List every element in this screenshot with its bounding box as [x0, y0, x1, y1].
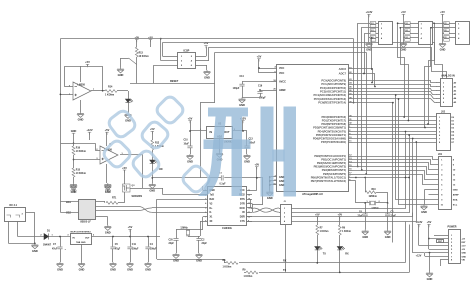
ground U2 ADJ: [216, 152, 223, 157]
wire DTR down: [252, 204, 254, 213]
wire ADC7: [353, 74, 375, 87]
svg-text:ANALOG IN: ANALOG IN: [441, 74, 455, 77]
svg-text:RESET: RESET: [170, 80, 179, 83]
ground CZ3: [439, 42, 446, 47]
wire U1 pin 1: [348, 127, 353, 129]
svg-text:1 KOhm: 1 KOhm: [105, 94, 114, 97]
wire DC pin2 down: [17, 221, 19, 236]
svg-text:AVCC: AVCC: [279, 81, 286, 84]
wire U1 pin 2: [348, 131, 353, 133]
svg-text:PB3(MOSI/OC2A/PCINT3): PB3(MOSI/OC2A/PCINT3): [314, 165, 347, 169]
ground spare: [104, 185, 111, 190]
svg-text:PC1(ADC1/PCINT9): PC1(ADC1/PCINT9): [321, 82, 346, 86]
svg-text:PC0(ADC0/PCINT8): PC0(ADC0/PCINT8): [321, 79, 346, 83]
wire U4 right pin 12: [247, 207, 252, 209]
wire DTR reset line: [152, 177, 263, 179]
wire SDA: [396, 95, 439, 200]
wire +12V stub: [242, 121, 244, 132]
node xtal row: [355, 177, 357, 179]
wire J2 pin2 to PD5: [292, 135, 410, 213]
wire +12V stub down: [89, 132, 91, 140]
wire U2 ADJ to ground: [219, 139, 221, 153]
svg-text:1MOhm: 1MOhm: [369, 196, 377, 198]
wire: [251, 208, 254, 210]
wire TxD feed: [162, 188, 164, 195]
node MISO junction: [361, 169, 363, 171]
connector USB B-LF: [79, 200, 96, 220]
svg-text:VIN: VIN: [462, 260, 466, 262]
crystal Y1 12MHz: [356, 202, 370, 204]
wire U1 pin 32: [348, 124, 353, 126]
wire to C3: [387, 203, 389, 214]
resistor: [72, 146, 75, 155]
svg-text:GND: GND: [362, 235, 368, 239]
wire digital D1: [353, 120, 437, 122]
wire U1 pin 18 AVCC: [271, 81, 277, 83]
svg-text:PB0(PCINT0/CLKO/ICP1): PB0(PCINT0/CLKO/ICP1): [314, 154, 346, 158]
svg-text:PB5(SCK/PCINT5): PB5(SCK/PCINT5): [323, 172, 346, 176]
wire C5 to ground: [112, 249, 114, 262]
transistor Q3 SI2302DS: [123, 184, 131, 192]
wire left rail to node: [60, 143, 73, 145]
wire ICSP pin3: [161, 60, 178, 62]
node DTR crossing: [256, 177, 258, 179]
svg-text:+5V: +5V: [105, 128, 110, 132]
svg-text:R13: R13: [139, 53, 144, 55]
wire JX1 gnd down: [424, 190, 426, 205]
svg-text:1 KOhm: 1 KOhm: [320, 231, 329, 233]
svg-text:TxD: TxD: [210, 195, 215, 197]
ground CZ1: [366, 42, 373, 47]
svg-text:MB1: MB1: [66, 202, 72, 204]
svg-text:DCD: DCD: [240, 208, 245, 210]
wire U3B output: [120, 154, 143, 156]
wire AREF to C16: [260, 90, 262, 92]
wire U1 pin 3 GND: [271, 176, 277, 178]
wire U1 pin 22: [348, 73, 353, 75]
wire analog A1: [353, 85, 437, 87]
svg-text:GND: GND: [244, 160, 250, 164]
svg-text:PD7(PCINT23/AIN1): PD7(PCINT23/AIN1): [321, 140, 346, 144]
node CZ2 TXD: [408, 120, 410, 122]
svg-text:47uF: 47uF: [52, 247, 58, 250]
wire digital D4: [353, 131, 437, 133]
wire DTR to CH340: [252, 204, 263, 206]
node VCC junction: [258, 67, 260, 69]
reset switch S1: [129, 58, 137, 65]
resistor: [365, 191, 376, 194]
ground ICSP: [204, 70, 211, 75]
wire CZ1 power column: [368, 14, 370, 42]
ground U3B: [104, 183, 111, 188]
svg-text:PD0(RXD/PCINT16): PD0(RXD/PCINT16): [322, 115, 347, 119]
connector CZ3: [456, 22, 470, 45]
svg-text:GND: GND: [427, 277, 433, 281]
wire +5V to Q3: [124, 170, 126, 184]
svg-text:0.1uF: 0.1uF: [220, 183, 227, 185]
wire reset node down: [136, 65, 138, 84]
svg-text:103: 103: [405, 30, 408, 32]
wire +5V to U4 VCC: [256, 167, 258, 191]
wire ICSP pin6: [195, 65, 207, 67]
wire C20 top: [176, 229, 178, 238]
capacitor: [187, 146, 192, 148]
capacitor CZ3 filter 2: [444, 29, 450, 35]
svg-text:GND: GND: [239, 103, 245, 107]
wire C11 top: [130, 237, 132, 247]
svg-text:GND: GND: [110, 268, 116, 272]
wire ICSP pin6 to ground: [206, 65, 208, 70]
node PD6: [412, 138, 414, 140]
node CZ3 tap2: [430, 27, 432, 29]
wire pin3: [444, 242, 449, 244]
op-amp: [73, 82, 91, 100]
wire top rail 4: [215, 52, 366, 54]
resistor: [135, 47, 138, 57]
wire LED D2 to ground: [128, 103, 130, 114]
capacitor CZ3 filter 1: [444, 22, 450, 28]
wire U1 pin 7: [348, 177, 353, 179]
wire U4 GND up: [202, 186, 204, 190]
node 5V: [428, 238, 430, 240]
wire CZ1 pin4 drop: [371, 38, 373, 69]
ground C5: [110, 262, 117, 267]
wire X1 down: [202, 217, 204, 230]
wire JX1 GND: [425, 189, 439, 191]
capacitor CZ1 filter 3: [370, 36, 376, 42]
svg-text:SCL: SCL: [453, 205, 458, 207]
wire U1 pin 15: [348, 166, 353, 168]
wire X1 to crystal Y2: [188, 229, 203, 231]
svg-text:VCC: VCC: [279, 72, 284, 75]
LED ON indicator: [150, 160, 158, 163]
ground POWER: [426, 272, 433, 277]
wire U1 pin 14: [348, 162, 353, 164]
svg-text:GND: GND: [125, 119, 131, 123]
wire C10 to ground: [190, 148, 192, 154]
resistor R9: [246, 270, 259, 275]
wire ICSP pin5: [154, 65, 178, 67]
svg-text:PD2(INT0/PCINT18): PD2(INT0/PCINT18): [321, 122, 346, 126]
wire CZ1 pin3 drop: [365, 34, 369, 74]
svg-text:DSR: DSR: [240, 217, 245, 219]
wire U1 pin 30: [348, 116, 353, 118]
svg-text:+5V: +5V: [337, 212, 342, 216]
capacitor CZ1 filter 1: [370, 22, 376, 28]
svg-text:+5V: +5V: [204, 41, 209, 45]
ground divider: [70, 183, 77, 188]
wire RT1 to Q3: [118, 202, 125, 204]
capacitor: [363, 214, 368, 216]
wire USB GND: [96, 216, 108, 218]
crystal: [186, 229, 190, 236]
wire R14 to LED D2: [117, 90, 128, 92]
svg-text:GND: GND: [440, 48, 446, 52]
svg-text:C14: C14: [240, 75, 245, 78]
wire U4 right pin 16: [247, 190, 252, 192]
svg-text:GND: GND: [105, 190, 111, 194]
svg-text:AREF: AREF: [279, 89, 286, 92]
svg-text:POWER: POWER: [448, 226, 457, 229]
svg-text:R12: R12: [155, 142, 160, 144]
svg-text:GND: GND: [187, 160, 193, 164]
svg-text:PC2(ADC2/PCINT10): PC2(ADC2/PCINT10): [320, 86, 346, 90]
node R10 tap: [364, 177, 366, 179]
wire U1 pin 26: [348, 91, 353, 93]
wire VIN down: [440, 260, 442, 266]
wire U4 right pin 10: [247, 216, 252, 218]
wire A4 stub: [436, 98, 440, 100]
wire CZ2 pin1: [403, 23, 418, 25]
wire left vertical rail: [60, 39, 62, 144]
node CZ1 to ADC7: [363, 73, 365, 75]
svg-text:R10: R10: [372, 189, 377, 191]
wire digital D11: [353, 167, 439, 175]
wire reset rail up right: [214, 52, 216, 83]
svg-text:GND: GND: [421, 210, 427, 214]
wire XTAL2 row: [353, 180, 356, 182]
wire C11 to ground: [130, 249, 132, 262]
svg-text:103: 103: [405, 23, 408, 25]
wire C13 to ground: [246, 148, 248, 154]
wire U1 GND pins: [270, 177, 271, 191]
ground C2: [196, 253, 203, 258]
svg-text:RT1: RT1: [112, 198, 117, 200]
wire U1 pin 16: [348, 170, 353, 172]
node CZ3 INT0: [427, 123, 429, 125]
wire C13 top: [246, 131, 248, 146]
resistor: [226, 262, 238, 265]
capacitor: [110, 247, 115, 249]
wire divider top: [73, 133, 75, 146]
wire VCC pin4: [259, 68, 271, 70]
wire +5V stub: [150, 40, 152, 48]
svg-text:GND: GND: [78, 118, 84, 122]
wire R10 tap down: [365, 178, 367, 193]
wire xtal right leg: [387, 192, 389, 203]
svg-text:+5V: +5V: [85, 60, 90, 64]
svg-text:GND: GND: [204, 76, 210, 80]
wire U1 pin 25: [348, 88, 353, 90]
wire C6 to ground: [365, 216, 367, 230]
resistor R8: [226, 260, 239, 265]
connector CZ1: [379, 22, 393, 45]
crystal: [370, 201, 376, 205]
wire RX riser: [405, 222, 407, 263]
svg-text:ADC6: ADC6: [339, 67, 347, 71]
wire pin8 VIN: [440, 259, 448, 261]
wire 3.3V to pin4: [418, 224, 420, 245]
wire U3B V- to ground: [106, 164, 108, 183]
wire U1 pin 29: [348, 102, 353, 104]
ground under LED D2: [125, 113, 132, 118]
ground under U3A: [77, 112, 84, 117]
wire CZ3 power column: [442, 14, 444, 42]
wire C2 to ground: [198, 240, 200, 253]
wire top rail 3 to analog header: [209, 48, 447, 79]
resistor: [316, 225, 319, 235]
node gnd: [429, 252, 431, 254]
capacitor: [239, 84, 244, 86]
wire DC pin3: [26, 212, 35, 214]
wire +5V to U3B: [106, 132, 108, 146]
svg-text:+5V: +5V: [315, 212, 320, 216]
wire CZ3 pin2: [443, 27, 456, 29]
svg-text:GND: GND: [57, 268, 63, 272]
wire U3A V+ stub: [80, 66, 82, 82]
wire U4 X1: [203, 216, 208, 218]
wire AVCC: [242, 81, 271, 83]
svg-text:+5V: +5V: [401, 10, 406, 14]
net label RST: [437, 240, 444, 243]
IC U1 ATmega328P-AU: [277, 65, 349, 192]
wire U1 pin 6 VCC: [271, 72, 277, 74]
wire top rail 1: [60, 38, 353, 40]
wire analog A4: [353, 95, 437, 99]
wire LED to ground: [152, 164, 154, 184]
ground C13: [244, 154, 251, 159]
wire digital D8: [353, 157, 439, 160]
wire CZ2 power column: [403, 14, 405, 42]
wire U3A feedback loop: [65, 67, 103, 91]
svg-text:AREF: AREF: [453, 194, 460, 197]
svg-text:+3.3V: +3.3V: [416, 220, 423, 224]
wire J2 down to TX line: [285, 225, 287, 273]
wire divider mid: [73, 155, 75, 168]
capacitor CZ2 filter 2: [405, 29, 411, 35]
wire C14 to ground: [242, 86, 244, 98]
wire digital D12: [353, 171, 439, 180]
svg-text:R15: R15: [76, 170, 81, 172]
capacitor: [221, 175, 223, 180]
wire AREF to JX1: [429, 194, 439, 196]
wire D1 to U5 IN: [49, 236, 71, 238]
twisted pair USB data: [138, 206, 152, 212]
ground CZ2: [400, 42, 407, 47]
wire to J2 pin3: [247, 216, 281, 218]
wire digital D6: [353, 138, 437, 140]
wire: [253, 212, 254, 214]
wire node to U3B inverting: [74, 143, 96, 145]
wire +5V to R6: [339, 217, 341, 225]
wire to ground GND_C: [120, 58, 122, 68]
svg-text:+5V: +5V: [257, 55, 262, 59]
svg-text:GND: GND: [71, 190, 77, 194]
wire U1 pin 12: [348, 156, 353, 158]
wire J2 pin4 to PD7: [292, 143, 417, 222]
wire switch to ground leg: [121, 58, 129, 60]
svg-text:RI: RI: [242, 212, 245, 214]
wire ICSP pin1 up: [162, 43, 164, 57]
svg-text:RX: RX: [345, 253, 349, 256]
svg-text:SDA: SDA: [453, 199, 458, 202]
wire serial to R8: [157, 259, 224, 261]
svg-text:GND: GND: [32, 249, 38, 253]
wire ICSP pin4: [195, 60, 209, 62]
wire USB GND down: [107, 217, 109, 225]
wire U1 pin 27: [348, 94, 353, 96]
svg-text:C16: C16: [258, 85, 263, 87]
capacitor: [173, 239, 178, 241]
wire C4 to ground: [148, 249, 150, 262]
wire CZ3 pin3: [443, 33, 456, 35]
connector J1 DC 2.1: [5, 208, 26, 222]
wire CZ1 pin1: [369, 23, 378, 25]
svg-text:PC4(ADC4/SDA/PCINT12): PC4(ADC4/SDA/PCINT12): [313, 93, 346, 97]
wire MB2: [60, 212, 78, 214]
wire to J2 pin2: [279, 212, 281, 214]
wire U3A V- to ground: [80, 100, 82, 112]
capacitor CZ1 filter 2: [370, 29, 376, 35]
wire U4 right pin 9: [247, 221, 252, 223]
wire U1 pin 9: [348, 134, 353, 136]
wire CZ1 pin4: [369, 37, 378, 39]
decorative watermark: [101, 94, 296, 196]
wire U3A non-inverting input: [60, 94, 73, 96]
wire rail 1 drop: [353, 39, 355, 103]
wire U1 pin 17: [348, 174, 353, 176]
svg-text:GND: GND: [79, 268, 85, 272]
ground DC jack: [32, 243, 39, 248]
wire gnd link: [424, 253, 426, 257]
wire C10 top: [190, 131, 192, 146]
svg-text:103: 103: [371, 23, 374, 25]
node RX LED to TX line: [339, 272, 341, 274]
wire RxD down: [156, 199, 158, 259]
capacitor CZ2 filter 1: [405, 22, 411, 28]
svg-text:D-: D-: [210, 212, 213, 214]
wire to Q3: [130, 188, 143, 190]
wire CZ1 pin1 drop: [358, 24, 369, 167]
wire +5V to R13: [136, 40, 138, 48]
resistor: [246, 271, 258, 274]
wire digital D13: [353, 175, 439, 185]
ground C4: [145, 262, 152, 267]
wire ICSP pin2 to +5V: [206, 47, 208, 57]
wire xtal left leg: [355, 181, 357, 203]
svg-text:GND: GND: [105, 231, 111, 235]
svg-text:ICSP: ICSP: [183, 50, 189, 53]
wire J2 pin1 to PD4: [292, 132, 406, 209]
wire U3A output: [91, 90, 105, 92]
wire pin6 GND: [425, 252, 448, 254]
svg-text:1 KOhm: 1 KOhm: [223, 266, 232, 268]
node feedback junction: [73, 142, 75, 144]
wire digital D0: [353, 116, 437, 118]
wire +5V tap: [87, 64, 89, 66]
svg-text:OUT: OUT: [224, 131, 230, 134]
connector ICSP: [178, 53, 196, 69]
resistor: [151, 140, 154, 150]
wire TX LED down: [317, 250, 319, 263]
wire pin2: [429, 238, 448, 240]
wire DC pin1 down: [8, 221, 10, 243]
wire CZ2 pin4: [403, 37, 418, 39]
svg-text:GND: GND: [462, 253, 467, 255]
svg-text:DTR: DTR: [240, 203, 245, 205]
ground U5: [78, 262, 85, 267]
node crossing: [405, 177, 407, 179]
svg-text:+5V: +5V: [122, 166, 127, 170]
svg-text:GND: GND: [149, 189, 155, 193]
wire C7 to ground: [60, 249, 62, 262]
wire U4 TxD: [163, 194, 208, 196]
wire U1 pin 31: [348, 120, 353, 122]
wire rail 4 drop: [366, 52, 368, 174]
wire reset to power header: [353, 103, 393, 243]
wire Q3 source down: [124, 192, 126, 203]
wire A0 stub: [436, 82, 440, 84]
